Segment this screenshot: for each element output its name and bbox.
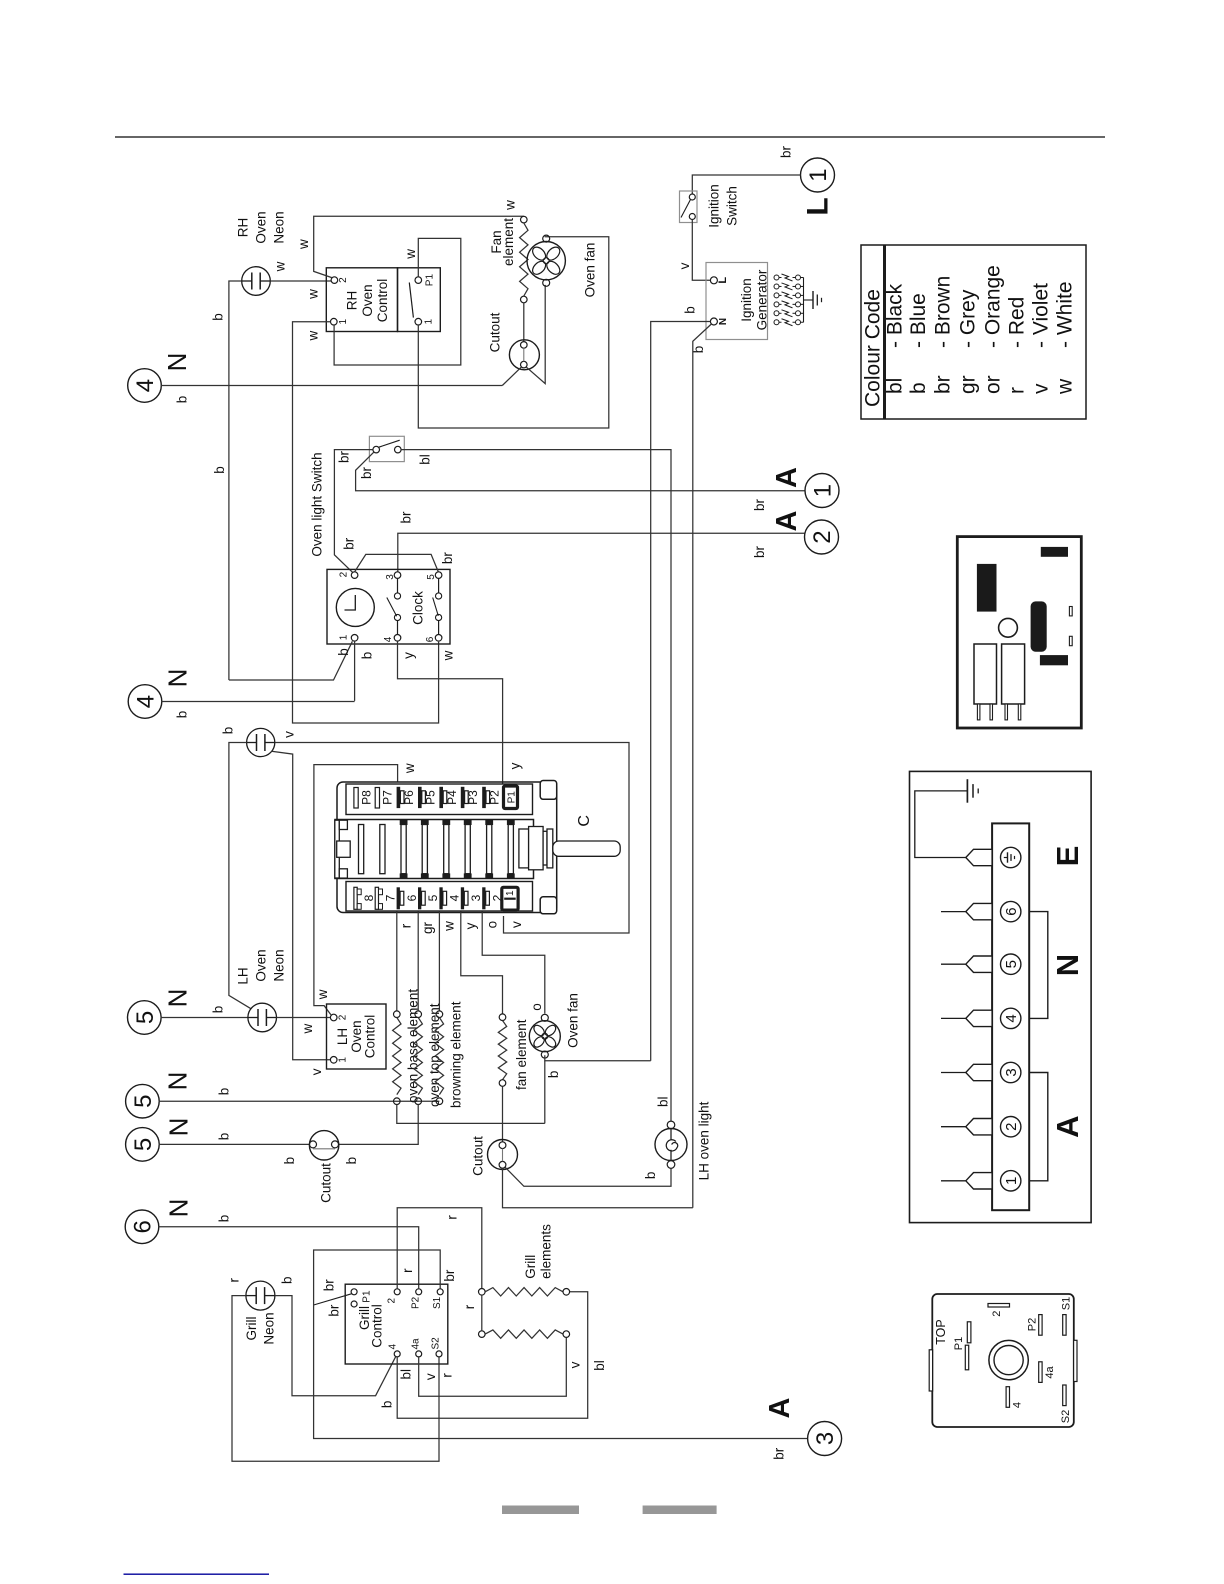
- svg-text:browning element: browning element: [448, 1001, 463, 1108]
- wire br: clock 3 to A2: [398, 533, 805, 572]
- svg-text:Ignition: Ignition: [739, 278, 754, 322]
- svg-text:b: b: [336, 648, 351, 656]
- svg-text:or: or: [981, 375, 1004, 394]
- svg-text:P8: P8: [359, 790, 373, 805]
- selector cam bar 8: [508, 825, 513, 874]
- wire r: grill 2 to grill elements: [397, 1208, 482, 1289]
- connector circle 4 (N) lower: [128, 685, 162, 719]
- svg-text:1: 1: [810, 484, 837, 497]
- svg-text:r: r: [462, 1304, 477, 1309]
- TOP blade 4a: [1039, 1362, 1042, 1383]
- pictorial pad bottom: [1040, 655, 1068, 665]
- clock terminal 4: [394, 635, 401, 642]
- svg-text:RH: RH: [235, 218, 250, 238]
- svg-text:4: 4: [133, 695, 160, 708]
- svg-text:P2: P2: [1027, 1318, 1039, 1331]
- resistor fan element (lower): [499, 1014, 506, 1021]
- svg-text:Oven fan: Oven fan: [566, 993, 581, 1048]
- motor Oven fan (RH): [527, 242, 565, 280]
- terminal 2 of RH Oven Control: [331, 277, 338, 284]
- wire: fan element to cutout: [502, 1086, 504, 1141]
- wire: cutout to N line: [502, 367, 521, 385]
- svg-text:b: b: [380, 1401, 395, 1409]
- selector cam bar 6: [465, 825, 470, 874]
- svg-text:4: 4: [132, 379, 159, 392]
- svg-text:P4: P4: [445, 790, 459, 805]
- wire: P1 switch 1 to oven fan top: [418, 237, 609, 428]
- svg-text:w: w: [503, 200, 518, 211]
- neon RH Oven Neon: [242, 267, 271, 296]
- lug arrow terminal 4: [966, 1010, 992, 1026]
- svg-text:b: b: [280, 1276, 295, 1284]
- svg-text:br: br: [342, 537, 357, 550]
- svg-text:5: 5: [130, 1095, 157, 1108]
- pictorial pad top: [1041, 547, 1068, 557]
- svg-text:- Black: - Black: [883, 283, 906, 348]
- clock face: [336, 588, 374, 626]
- svg-text:b: b: [217, 1215, 232, 1223]
- RH Oven Control box: [326, 268, 397, 332]
- wire N: circle 5 to cutout: [159, 1143, 310, 1145]
- lamp LH oven light: [655, 1129, 687, 1161]
- svg-text:b: b: [212, 466, 227, 474]
- svg-text:N: N: [162, 1072, 192, 1091]
- svg-text:- Brown: - Brown: [931, 276, 954, 348]
- oven light switch contacts: [373, 446, 380, 453]
- Ignition Generator box: [706, 263, 768, 340]
- terminal S1 of grill control: [437, 1289, 443, 1295]
- TOP blade 4: [1006, 1387, 1009, 1408]
- svg-text:4a: 4a: [410, 1338, 421, 1350]
- svg-text:LH oven light: LH oven light: [696, 1101, 711, 1180]
- selector terminal 5: [418, 887, 421, 909]
- ground symbol (generator): [804, 299, 814, 301]
- wire y: clock 4 to selector P1: [398, 641, 503, 788]
- svg-text:N: N: [718, 318, 729, 325]
- selector cam bar 7: [487, 825, 492, 874]
- LH Oven Control box: [327, 1004, 387, 1069]
- svg-text:br: br: [779, 145, 794, 158]
- terminal 1 of mains block: [1001, 1171, 1021, 1191]
- svg-text:br: br: [322, 1279, 337, 1292]
- svg-text:bl: bl: [399, 1369, 414, 1380]
- selector terminal 3: [461, 887, 464, 909]
- wire b: grill neon to grill control 4: [275, 1296, 396, 1396]
- selector top terminal strip: [346, 784, 533, 815]
- svg-text:w: w: [1053, 378, 1076, 395]
- selector terminal 7: [375, 887, 378, 909]
- wire stub terminal 1: [941, 1180, 966, 1182]
- selector terminal P5: [418, 787, 422, 808]
- selector cam bar 2: [380, 825, 385, 874]
- svg-text:Grill: Grill: [244, 1317, 259, 1341]
- svg-text:P6: P6: [402, 790, 416, 805]
- svg-text:P1: P1: [425, 274, 436, 287]
- svg-text:b: b: [683, 306, 698, 314]
- svg-text:P2: P2: [488, 790, 502, 805]
- svg-text:o: o: [485, 921, 500, 929]
- ignition switch contacts: [689, 194, 695, 200]
- TOP blade S2: [1063, 1385, 1066, 1406]
- wire b: base element to oven fan return: [397, 1105, 545, 1124]
- clock terminal 3: [394, 572, 401, 579]
- ignition generator pictorial box: [957, 537, 1081, 728]
- svg-text:L: L: [717, 277, 729, 284]
- svg-text:b: b: [211, 313, 226, 321]
- svg-text:Oven fan: Oven fan: [582, 243, 597, 298]
- svg-text:A: A: [771, 467, 803, 488]
- svg-text:2: 2: [338, 1014, 349, 1020]
- ground symbol (terminal block): [966, 779, 968, 803]
- selector terminal P7: [375, 788, 379, 809]
- svg-text:5: 5: [1003, 960, 1020, 968]
- svg-text:2: 2: [338, 277, 349, 283]
- wire stub terminal 2: [941, 1126, 966, 1128]
- wire earth: terminal E to ground: [915, 791, 968, 858]
- svg-text:Switch: Switch: [725, 186, 740, 226]
- svg-text:y: y: [463, 922, 478, 929]
- terminal 4 of grill control: [394, 1351, 400, 1357]
- clock terminal 5: [435, 572, 442, 579]
- wire stub terminal 3: [941, 1072, 966, 1074]
- resistor Fan element: [521, 216, 528, 223]
- cutout thermal (RH oven): [509, 340, 539, 370]
- wire: cutout to oven fan bottom: [526, 285, 545, 384]
- svg-text:3: 3: [385, 574, 396, 580]
- svg-text:Control: Control: [375, 279, 390, 323]
- svg-text:P1: P1: [507, 791, 518, 804]
- contact P1 of grill control: [351, 1289, 357, 1295]
- neon (oven indicator): [247, 728, 275, 756]
- svg-text:y: y: [508, 762, 523, 769]
- TOP side tab left: [929, 1350, 932, 1391]
- svg-text:br: br: [359, 466, 374, 479]
- lug arrow terminal 2: [966, 1119, 992, 1135]
- svg-text:Control: Control: [363, 1015, 378, 1059]
- svg-text:P1: P1: [953, 1337, 965, 1350]
- wire w: selector P6 to LH control 2: [314, 765, 398, 1015]
- wire gr: selector 5 to oven top element: [417, 912, 419, 1011]
- svg-text:r: r: [439, 1373, 454, 1378]
- svg-text:- Red: - Red: [1005, 297, 1028, 348]
- svg-text:b: b: [691, 346, 706, 354]
- svg-text:A: A: [764, 1397, 796, 1418]
- svg-text:4: 4: [383, 636, 394, 642]
- pictorial slot 1: [1069, 607, 1072, 616]
- wire b: generator N down right side: [693, 324, 712, 1208]
- svg-text:P7: P7: [381, 790, 395, 805]
- svg-text:4: 4: [448, 894, 462, 901]
- neon LH Oven Neon: [248, 1003, 277, 1032]
- svg-text:5: 5: [130, 1138, 157, 1151]
- svg-text:P5: P5: [423, 790, 437, 805]
- lug arrow terminal 6: [966, 903, 992, 919]
- page header rule: [115, 136, 1105, 138]
- svg-text:3: 3: [469, 894, 483, 901]
- lug arrow terminal 5: [966, 956, 992, 972]
- TOP view shaft circles: [989, 1340, 1028, 1379]
- svg-text:- Violet: - Violet: [1029, 283, 1052, 348]
- clock terminal 2: [351, 572, 358, 579]
- Grill Control box: [345, 1284, 448, 1364]
- resistor grill element 2: [479, 1331, 486, 1338]
- svg-text:1: 1: [338, 318, 349, 324]
- svg-text:b: b: [175, 711, 190, 719]
- wire b: cutout down to right riser: [503, 1168, 693, 1208]
- svg-text:N: N: [162, 353, 192, 372]
- terminal block strip: [992, 823, 1029, 1210]
- svg-text:2: 2: [1003, 1123, 1020, 1131]
- wire b: RH neon to node y680: [229, 281, 242, 680]
- svg-text:b: b: [344, 1157, 359, 1165]
- svg-text:b: b: [907, 382, 930, 394]
- selector cam bar 3: [401, 825, 406, 874]
- svg-text:1: 1: [338, 1057, 349, 1063]
- wire br: switch to A1: [356, 452, 805, 491]
- selector terminal 1: [502, 887, 518, 910]
- Oven light Switch box: [369, 436, 404, 461]
- lug arrow terminal 1: [966, 1173, 992, 1189]
- svg-text:gr: gr: [420, 921, 435, 934]
- svg-text:b: b: [217, 1088, 232, 1096]
- wire v: ignition switch to generator L: [692, 220, 710, 281]
- clock terminal 1: [351, 635, 358, 642]
- svg-text:S1: S1: [1060, 1297, 1072, 1310]
- pictorial transformer block: [977, 564, 997, 612]
- connector circle A1: [805, 474, 839, 508]
- clock terminal 6: [435, 635, 442, 642]
- pictorial capacitor block: [1031, 601, 1047, 651]
- wire N: circle 6 to grill control P2: [158, 1227, 419, 1289]
- svg-text:bl: bl: [592, 1360, 607, 1371]
- svg-text:br: br: [399, 511, 414, 524]
- pictorial pin: [977, 704, 980, 720]
- pictorial slot 2: [1069, 636, 1072, 645]
- selector terminal 6: [397, 887, 400, 909]
- cutout thermal (fan circuit): [488, 1140, 518, 1170]
- selector cam bar 1: [359, 825, 364, 874]
- wire br: clock 2 to clock 5: [355, 554, 439, 571]
- svg-text:w: w: [403, 249, 418, 260]
- pictorial connector block 1: [974, 644, 997, 704]
- svg-text:- Orange: - Orange: [981, 265, 1004, 348]
- svg-text:br: br: [440, 552, 455, 565]
- svg-text:Neon: Neon: [261, 1312, 276, 1344]
- terminal 1 of RH Oven Control: [331, 318, 338, 325]
- pictorial pin: [1005, 704, 1008, 720]
- resistor oven base element: [394, 1011, 401, 1018]
- cutout thermal (LH oven): [309, 1131, 338, 1160]
- wire w: RH control 1 to clock 6: [293, 322, 439, 723]
- svg-text:Neon: Neon: [271, 211, 286, 243]
- selector terminal P1: [504, 786, 518, 809]
- svg-text:2: 2: [991, 1311, 1003, 1317]
- svg-text:4a: 4a: [1044, 1366, 1056, 1379]
- svg-text:gr: gr: [956, 375, 979, 394]
- svg-text:w: w: [300, 1023, 315, 1034]
- svg-text:- Blue: - Blue: [907, 293, 930, 348]
- TOP blade 2: [988, 1304, 1010, 1308]
- wire br: circle 1 to ignition switch: [692, 175, 800, 194]
- footer link rule: [124, 1573, 270, 1575]
- svg-text:b: b: [221, 727, 236, 735]
- Colour Code header rule: [883, 245, 886, 419]
- svg-text:element: element: [501, 218, 516, 266]
- svg-text:w: w: [296, 239, 311, 250]
- pictorial circle component: [999, 618, 1018, 637]
- TOP view box (grill control): [932, 1294, 1074, 1427]
- wire y: selector 3 to fan element: [461, 912, 503, 1014]
- resistor grill element 1: [479, 1289, 486, 1296]
- connector circle 5 (N) second: [126, 1084, 160, 1118]
- wire N: circle 5 to element commons: [159, 1100, 440, 1102]
- wire w: LH neon to LH control 2: [277, 1017, 331, 1019]
- svg-text:v: v: [567, 1361, 582, 1368]
- terminal 2 of LH Oven Control: [330, 1014, 337, 1021]
- connector circle 4 (N) upper: [128, 369, 162, 403]
- wire v: neon to LH control 1: [272, 751, 331, 1060]
- Colour Code table box: [861, 245, 1086, 419]
- terminal 6 of mains block: [1001, 901, 1021, 921]
- selector bottom terminal strip: [346, 882, 533, 912]
- wire w: selector 4 to browning element: [438, 912, 440, 1011]
- svg-text:S1: S1: [432, 1296, 443, 1309]
- svg-text:Clock: Clock: [410, 591, 425, 625]
- svg-text:br: br: [931, 375, 954, 394]
- selector notch top-right: [540, 781, 557, 800]
- svg-text:Cutout: Cutout: [487, 312, 502, 352]
- terminal 5 of mains block: [1001, 954, 1021, 974]
- svg-text:b: b: [359, 652, 374, 660]
- selector terminal P3: [461, 787, 465, 808]
- wire N: circle 4 to cutout: [161, 385, 503, 387]
- wire bl: switch to LH oven light: [401, 450, 671, 1122]
- terminal E of mains block: [1001, 847, 1021, 867]
- svg-text:v: v: [282, 731, 297, 738]
- svg-text:Oven: Oven: [360, 284, 375, 316]
- svg-text:b: b: [175, 396, 190, 404]
- svg-text:Colour Code: Colour Code: [862, 289, 885, 407]
- connector circle 5 (N) first: [128, 1001, 162, 1035]
- contact P1: [415, 277, 422, 284]
- selector terminal P4: [439, 787, 443, 808]
- selector cam bar 4: [422, 825, 427, 874]
- terminal 2 of mains block: [1001, 1117, 1021, 1137]
- svg-text:S2: S2: [1060, 1410, 1072, 1423]
- wire N: circle 5 to LH oven neon: [161, 1017, 248, 1019]
- svg-text:b: b: [217, 1133, 232, 1141]
- selector terminal 8: [354, 887, 357, 909]
- svg-text:1: 1: [424, 318, 435, 324]
- svg-text:P3: P3: [466, 790, 480, 805]
- A bracket terminals 3-1: [1029, 1073, 1048, 1181]
- selector terminal P2: [482, 787, 486, 808]
- wire b: cutout to LH oven light: [505, 1167, 671, 1186]
- svg-text:v: v: [677, 262, 692, 269]
- pictorial pin: [990, 704, 993, 720]
- TOP side tab right: [1074, 1340, 1077, 1381]
- pictorial connector block 2: [1002, 644, 1025, 704]
- svg-text:o: o: [529, 1003, 544, 1011]
- svg-text:3: 3: [1003, 1068, 1020, 1076]
- wire w: RH neon to RH control 2: [270, 280, 331, 282]
- wire b: clock 1 junction to left: [229, 641, 353, 680]
- svg-text:1: 1: [805, 168, 832, 181]
- lug arrow terminal E: [966, 849, 992, 865]
- svg-text:N: N: [162, 989, 192, 1008]
- svg-text:2: 2: [809, 530, 836, 543]
- TOP blade S1: [1063, 1315, 1066, 1336]
- svg-text:3: 3: [812, 1432, 839, 1445]
- wire b: neon down to LH oven neon: [229, 743, 251, 1009]
- switch lever P1-1: [409, 283, 413, 318]
- selector terminal 2: [482, 887, 485, 909]
- svg-text:br: br: [752, 498, 767, 511]
- terminal S2 of grill control: [436, 1351, 442, 1357]
- svg-text:w: w: [273, 261, 288, 272]
- svg-text:v: v: [309, 1068, 324, 1075]
- svg-text:Neon: Neon: [271, 949, 286, 981]
- connector circle A3: [808, 1422, 842, 1456]
- neon Grill Neon: [246, 1281, 275, 1310]
- wire stub terminal 6: [941, 911, 966, 913]
- clock switch 5-6: [438, 578, 440, 592]
- svg-text:Oven: Oven: [253, 211, 268, 243]
- svg-text:P2: P2: [410, 1296, 421, 1309]
- svg-text:2: 2: [386, 1298, 397, 1304]
- svg-text:N: N: [162, 669, 192, 688]
- motor Oven fan (lower): [529, 1021, 560, 1052]
- selector left bracket: [335, 820, 340, 878]
- svg-text:6: 6: [1003, 907, 1020, 915]
- svg-text:S2: S2: [431, 1337, 442, 1350]
- footer bar 1: [502, 1506, 579, 1515]
- TOP blade P1: [967, 1322, 971, 1343]
- selector shaft hub: [519, 829, 529, 868]
- svg-text:8: 8: [362, 894, 376, 901]
- wire w: RH control 2 up to fan element: [314, 216, 524, 277]
- wire N: circle 4 to clock 1: [161, 701, 354, 703]
- svg-text:N: N: [163, 1118, 193, 1137]
- wire v: neon to selector 1: [275, 743, 629, 934]
- selector notch bottom-right: [540, 897, 557, 914]
- spark gap bus: [803, 278, 805, 323]
- svg-text:4: 4: [388, 1344, 399, 1350]
- lug arrow terminal 3: [966, 1064, 992, 1080]
- svg-text:r: r: [444, 1215, 459, 1220]
- svg-text:br: br: [772, 1447, 787, 1460]
- svg-text:b: b: [282, 1157, 297, 1165]
- svg-text:br: br: [337, 450, 352, 463]
- svg-text:bl: bl: [883, 378, 906, 394]
- svg-text:6: 6: [425, 636, 436, 642]
- svg-text:- White: - White: [1053, 281, 1076, 348]
- terminal P2 of grill control: [416, 1289, 422, 1295]
- wire r: selector 6 to oven base element: [396, 912, 398, 1011]
- svg-text:5: 5: [132, 1011, 159, 1024]
- terminal 4a of grill control: [416, 1351, 422, 1357]
- selector switch C outline: [337, 782, 557, 913]
- svg-text:1: 1: [1003, 1177, 1020, 1185]
- svg-text:r: r: [1005, 387, 1028, 394]
- svg-text:RH: RH: [345, 291, 360, 311]
- terminal block outer box: [910, 771, 1092, 1222]
- connector circle A2: [805, 520, 839, 554]
- svg-text:b: b: [211, 1006, 226, 1014]
- resistor browning element: [436, 1011, 443, 1018]
- svg-text:LH: LH: [235, 967, 250, 984]
- svg-text:b: b: [643, 1172, 658, 1180]
